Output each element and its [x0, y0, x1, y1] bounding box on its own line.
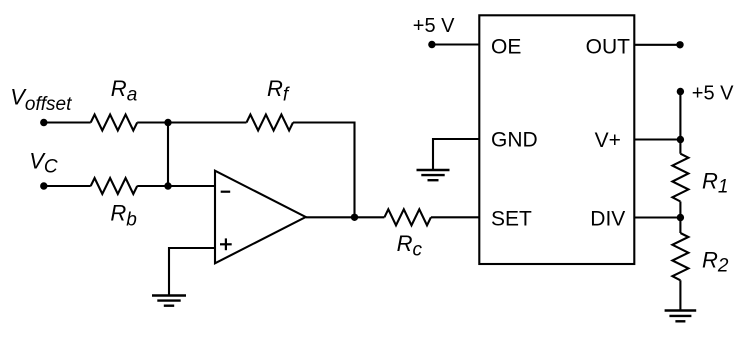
- svg-text:OUT: OUT: [586, 36, 631, 59]
- node A junction: [164, 119, 171, 126]
- IC U2 box: [479, 15, 634, 264]
- wire DIV pin to rail: [634, 216, 680, 218]
- svg-text:+5 V: +5 V: [692, 83, 734, 105]
- svg-text:Rf: Rf: [267, 76, 290, 106]
- node B junction: [164, 182, 171, 189]
- wire Rc to SET pin: [431, 216, 479, 218]
- node Voffset terminal: [10, 85, 72, 127]
- svg-text:R1: R1: [702, 168, 728, 197]
- node DIV junction: [677, 214, 684, 221]
- wire Rb through node B to op-amp inverting input: [137, 185, 215, 187]
- node +5V right: [677, 83, 734, 105]
- svg-text:Rc: Rc: [397, 231, 423, 261]
- wire R2 to ground: [679, 280, 681, 310]
- wire Vc to Rb: [44, 185, 91, 187]
- node output junction: [351, 214, 358, 221]
- node Vc terminal: [29, 148, 58, 189]
- wire Ra to node A and on to Rf: [137, 121, 246, 123]
- resistor R1: [672, 154, 728, 202]
- resistor R2: [672, 233, 728, 280]
- wire GND pin to ground: [433, 139, 479, 170]
- resistor Rb: [91, 178, 138, 230]
- svg-text:V+: V+: [595, 129, 621, 152]
- wire OUT pin to output terminal: [634, 44, 680, 46]
- wire Rf to feedback corner: [293, 123, 355, 218]
- ground (R2): [665, 311, 697, 322]
- svg-text:R2: R2: [702, 248, 729, 277]
- ground (op-amp non-inverting input): [152, 296, 186, 306]
- resistor Rc: [384, 209, 431, 260]
- resistor Rf: [247, 76, 294, 131]
- wire V+ pin to rail: [634, 138, 680, 140]
- svg-text:VC: VC: [29, 148, 58, 177]
- svg-text:SET: SET: [491, 207, 532, 230]
- wire +5V to OE pin: [432, 43, 479, 45]
- wire +5V right rail down through V+ junction to R1: [679, 92, 681, 154]
- op-amp U1: [215, 171, 306, 264]
- node +5V left: [413, 15, 455, 48]
- wire Voffset to Ra: [44, 121, 91, 123]
- svg-text:Rb: Rb: [110, 201, 136, 231]
- svg-text:Ra: Ra: [111, 76, 137, 106]
- svg-text:OE: OE: [491, 36, 521, 59]
- wire node A to node B vertical: [167, 123, 169, 187]
- svg-text:Voffset: Voffset: [10, 85, 72, 115]
- resistor Ra: [91, 76, 138, 131]
- wire op-amp non-inverting input to ground: [169, 248, 215, 296]
- wire R1 to DIV junction to R2: [679, 202, 681, 234]
- ground (GND pin): [417, 170, 450, 180]
- svg-text:DIV: DIV: [590, 208, 625, 231]
- svg-text:GND: GND: [491, 129, 538, 152]
- node V+ junction: [677, 136, 684, 143]
- wire op-amp output to Rc: [306, 216, 385, 218]
- svg-text:+5 V: +5 V: [413, 15, 455, 37]
- node OUT terminal: [676, 41, 683, 48]
